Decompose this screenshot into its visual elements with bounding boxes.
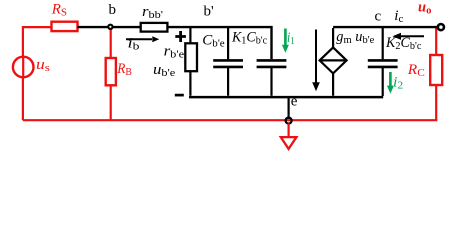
node e junction ring: [286, 118, 292, 124]
node b (open circle): [108, 25, 112, 29]
capacitor K2C_b'c with stems: [382, 28, 384, 96]
minus sign (u_b'e polarity): [175, 94, 184, 97]
svg-text:ub'e: ub'e: [153, 62, 175, 79]
svg-text:Cb'e: Cb'e: [202, 32, 225, 49]
svg-text:K2Cb'c: K2Cb'c: [385, 35, 421, 52]
svg-text:i2: i2: [393, 75, 403, 92]
svg-text:us: us: [36, 57, 50, 74]
svg-text:uo: uo: [418, 0, 432, 17]
current arrow i_1 (green): [284, 29, 287, 46]
wire: R_B branch (red vertical under node b): [110, 28, 112, 120]
capacitor K1C_b'c (stem is rail corner): [270, 68, 272, 96]
ground symbol (red): [288, 123, 290, 137]
svg-text:e: e: [291, 94, 298, 110]
svg-text:rb'e: rb'e: [164, 43, 185, 60]
svg-text:RS: RS: [51, 2, 67, 19]
output terminal u_o ring: [438, 24, 444, 30]
svg-text:c: c: [375, 9, 382, 25]
source V1: independent source u_s circle: [13, 57, 34, 78]
resistor R_S: [52, 22, 78, 31]
plus sign (u_b'e polarity): [175, 31, 186, 42]
svg-text:RB: RB: [116, 61, 131, 78]
current arrow i_b: [126, 38, 152, 40]
resistor R_C: [430, 55, 442, 85]
wire: top rail right section (c to output): [333, 26, 437, 28]
svg-text:b': b': [204, 4, 215, 20]
svg-text:i1: i1: [287, 30, 295, 47]
dependent current source g_m u_b'e : diamond with stems: [332, 28, 334, 96]
svg-text:rbb': rbb': [142, 4, 163, 21]
resistor r_bb': [141, 23, 168, 32]
svg-text:ib: ib: [128, 36, 141, 53]
node e branch wire: [288, 97, 290, 119]
wire: top rail left section (b to K1 corner): [78, 27, 272, 59]
resistor r_b'e with stems: [189, 28, 191, 96]
svg-text:b: b: [109, 2, 117, 18]
wire: bottom black rail (emitter rail): [189, 96, 383, 99]
current arrow i_2 (green): [389, 72, 392, 86]
dependent current source g_m u_b'e : direction arrow: [315, 30, 317, 85]
resistor R_B: [106, 58, 116, 85]
svg-text:K1Cb'c: K1Cb'c: [231, 29, 267, 46]
svg-text:RC: RC: [407, 62, 425, 79]
svg-text:ic: ic: [394, 8, 403, 25]
wire: R_C branch (red vertical under output): [435, 28, 437, 120]
wire: outer red loop (left vertical, top-left segment, bottom rail): [23, 27, 437, 120]
current arrow i_c (points left): [400, 35, 424, 37]
capacitor C_b'e: [227, 28, 229, 96]
svg-text:gm ub'e: gm ub'e: [336, 29, 374, 46]
